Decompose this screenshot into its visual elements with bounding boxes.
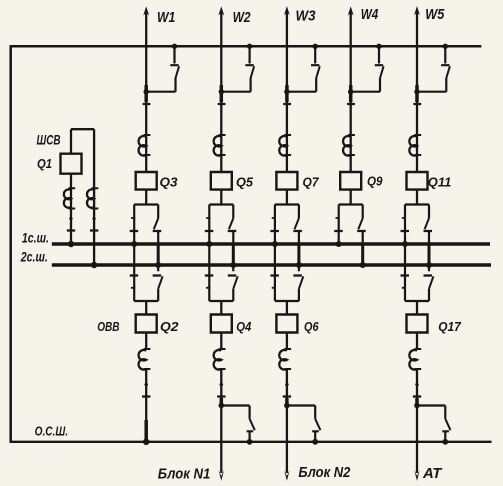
svg-text:Блок N1: Блок N1 xyxy=(158,466,211,483)
svg-text:Q11: Q11 xyxy=(428,175,452,190)
svg-text:Q4: Q4 xyxy=(236,319,252,334)
svg-text:АТ: АТ xyxy=(422,465,443,482)
svg-text:W5: W5 xyxy=(425,6,445,23)
svg-text:ОВВ: ОВВ xyxy=(97,319,119,334)
svg-text:W4: W4 xyxy=(361,6,379,23)
svg-text:Q7: Q7 xyxy=(303,175,320,190)
svg-text:2с.ш.: 2с.ш. xyxy=(20,248,48,264)
svg-text:1с.ш.: 1с.ш. xyxy=(22,230,49,246)
svg-text:W1: W1 xyxy=(157,9,175,26)
svg-text:W2: W2 xyxy=(233,9,252,26)
svg-text:Q5: Q5 xyxy=(236,175,254,190)
svg-text:Q2: Q2 xyxy=(160,319,179,334)
svg-text:Блок N2: Блок N2 xyxy=(298,464,351,481)
svg-text:Q9: Q9 xyxy=(367,174,383,189)
svg-text:W3: W3 xyxy=(296,8,317,25)
svg-text:Q3: Q3 xyxy=(160,175,179,190)
svg-text:ШСВ: ШСВ xyxy=(37,132,61,148)
svg-text:Q1: Q1 xyxy=(37,156,52,171)
svg-text:О.С.Ш.: О.С.Ш. xyxy=(35,425,68,439)
svg-text:Q6: Q6 xyxy=(304,319,319,334)
svg-text:Q17: Q17 xyxy=(438,319,461,334)
